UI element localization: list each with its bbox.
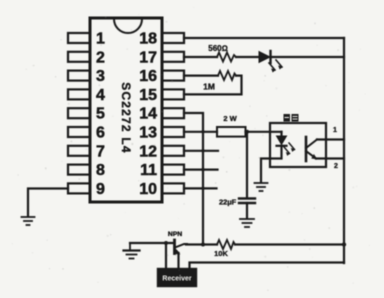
wire pin18 to V+ bus — [184, 37, 344, 39]
wire pin10 stub — [184, 187, 217, 189]
svg-text:1: 1 — [333, 127, 337, 134]
svg-text:8: 8 — [96, 162, 105, 179]
wire resistor to optocoupler — [246, 131, 282, 133]
pin 16 — [162, 71, 184, 81]
junction bus/10K line — [342, 242, 346, 246]
phototransistor Q1 — [306, 137, 317, 161]
svg-text:11: 11 — [140, 162, 157, 179]
pin 3 — [68, 71, 90, 81]
ground G2 (cap) — [240, 219, 254, 227]
optocoupler U2 box — [270, 123, 326, 167]
pin 18 — [162, 33, 184, 43]
wire cap to ground — [246, 203, 248, 218]
wire opto pin1 to bus — [317, 138, 344, 140]
junction node A (cap tap) — [245, 130, 249, 134]
pin 4 — [68, 89, 90, 99]
pin 6 — [68, 127, 90, 137]
IC U1 body — [90, 18, 162, 202]
wire pin13 to resistor — [184, 131, 217, 133]
wire pin12 stub — [184, 150, 218, 152]
pin 17 — [162, 52, 184, 62]
junction pin12/vertical — [201, 149, 204, 152]
IC pin number labels — [96, 31, 157, 198]
resistor R4 10K — [217, 240, 235, 249]
junction base/receiver — [164, 241, 168, 245]
svg-text:4: 4 — [96, 87, 105, 104]
svg-text:7: 7 — [96, 143, 105, 160]
wire junction to receiver — [165, 243, 167, 269]
pin 8 — [68, 165, 90, 175]
transistor Q2 NPN — [175, 240, 188, 254]
pin 7 — [68, 146, 90, 156]
svg-text:9: 9 — [96, 181, 105, 198]
svg-text:22µF: 22µF — [219, 198, 237, 207]
svg-text:14: 14 — [139, 106, 157, 123]
wire emitter to receiver — [177, 253, 179, 269]
V+ bus right vertical — [343, 38, 345, 263]
pin 11 — [162, 165, 184, 175]
junction pin13/vertical — [201, 130, 204, 133]
svg-text:2: 2 — [334, 163, 338, 170]
svg-text:SC2272 L4: SC2272 L4 — [119, 82, 133, 154]
svg-text:1M: 1M — [203, 82, 215, 92]
resistor R2 1M — [218, 71, 236, 80]
pin 15 — [162, 89, 184, 99]
svg-text:2 W: 2 W — [223, 114, 237, 123]
pin 14 — [162, 108, 184, 118]
svg-text:17: 17 — [139, 49, 157, 66]
svg-text:16: 16 — [139, 68, 157, 85]
svg-text:18: 18 — [139, 31, 157, 48]
svg-text:6: 6 — [96, 125, 105, 142]
pin 2 — [68, 52, 90, 62]
wire opto LED cathode to ground — [261, 146, 282, 182]
wire cap branch — [246, 132, 248, 198]
wire collector line — [186, 243, 217, 245]
IC U1 notch — [114, 19, 142, 33]
wire receiver output to bus — [190, 263, 345, 270]
svg-text:5: 5 — [96, 106, 105, 123]
svg-text:3: 3 — [96, 68, 105, 85]
svg-text:13: 13 — [139, 125, 157, 142]
pin 13 — [162, 127, 184, 137]
svg-text:10K: 10K — [214, 249, 228, 258]
pin 10 — [162, 183, 184, 193]
pin 12 — [162, 146, 184, 156]
svg-text:2: 2 — [96, 49, 105, 66]
wire LED to V+ bus — [271, 56, 344, 58]
pin 1 — [68, 33, 90, 43]
resistor R3 2W box — [217, 127, 246, 137]
svg-text:Receiver: Receiver — [162, 276, 191, 283]
resistor R1 560ohm — [217, 53, 236, 62]
ground G1 (pin 9) — [22, 217, 35, 225]
receiver module box — [158, 269, 196, 286]
svg-text:560Ω: 560Ω — [208, 44, 228, 53]
ground G4 (bottom left) — [124, 243, 140, 259]
wire pin11 stub — [184, 169, 218, 171]
opto LED D2 — [277, 132, 295, 155]
junction collector/pin14 line — [201, 243, 205, 247]
label optocoupler (kanji) — [284, 114, 299, 122]
wire ground to transistor base — [130, 242, 173, 244]
wire pin16 to resistor — [184, 74, 218, 76]
svg-text:10: 10 — [139, 181, 157, 198]
wire opto pin2 to bus — [316, 157, 344, 159]
wire pin14 down — [184, 113, 203, 245]
pin 9 — [68, 183, 90, 193]
LED D1 — [259, 51, 282, 72]
wire resistor to LED — [236, 56, 259, 58]
junction pin11/vertical — [201, 168, 204, 171]
svg-text:15: 15 — [139, 87, 157, 104]
wire pin17 to resistor — [184, 56, 217, 58]
wire 10K to bus — [235, 243, 344, 245]
wire resistor loop to pin15 — [184, 76, 242, 95]
wire pin9 to ground — [28, 189, 68, 217]
ground G3 (opto) — [255, 183, 268, 191]
capacitor C1 22uF — [239, 199, 255, 204]
svg-text:NPN: NPN — [168, 231, 182, 238]
junction pin10/vertical — [201, 187, 204, 190]
pin 5 — [68, 108, 90, 118]
